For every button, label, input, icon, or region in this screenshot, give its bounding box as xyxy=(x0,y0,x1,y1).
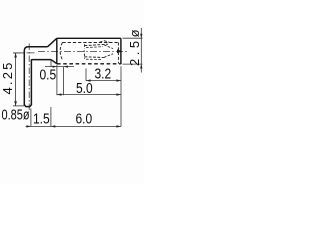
wire: arm centerline extended left (4.25 reference) xyxy=(13,52,36,54)
dim 4.25 top extension tick xyxy=(13,52,24,54)
contact spring top edge xyxy=(85,44,109,45)
dim 1.5 extension at pin right edge xyxy=(30,109,32,127)
dim 1.5/6.0 extension at taper corner xyxy=(50,107,52,127)
contact funnel bottom xyxy=(104,54,113,58)
dim 0.5 extension left (taper end corner) xyxy=(50,61,52,67)
dim 4.25 line xyxy=(15,53,17,106)
dim 5.0 line xyxy=(57,94,121,96)
dim 2.5 bottom extension xyxy=(123,63,143,65)
svg-text:5.0: 5.0 xyxy=(76,80,93,97)
dim 0.5 / 5.0 extension at body left face xyxy=(56,65,58,95)
dim 1.5 + 6.0 line xyxy=(26,125,122,127)
bore end hidden line xyxy=(117,43,119,64)
dim 2.5 line xyxy=(140,28,142,73)
contact spring top inner xyxy=(86,47,103,48)
svg-text:4.25: 4.25 xyxy=(0,60,15,94)
svg-text:6.0: 6.0 xyxy=(76,110,93,127)
svg-text:0.5: 0.5 xyxy=(40,66,57,83)
dim 3.2 line xyxy=(86,80,121,82)
svg-text:0.85ø: 0.85ø xyxy=(2,106,30,123)
contact spring bottom inner xyxy=(86,58,102,60)
wire: vertical centerline of pin xyxy=(28,44,30,111)
dim 0.5 extension at bore start xyxy=(63,67,65,95)
body top edge xyxy=(57,37,121,39)
body left face xyxy=(56,38,58,64)
pin L-shaped lead outline xyxy=(24,47,51,107)
dim 3.2 extension at contact left xyxy=(85,69,87,81)
wire: horizontal centerline of body xyxy=(38,50,127,52)
bore top hidden line xyxy=(63,42,119,44)
svg-text:3.2: 3.2 xyxy=(95,65,112,82)
centerline arrowhead at right face xyxy=(117,49,122,53)
dim 4.25 bottom extension xyxy=(13,105,24,107)
svg-text:2.5ø: 2.5ø xyxy=(127,26,142,66)
contact funnel top xyxy=(104,45,113,49)
dim 2.5 top extension xyxy=(123,37,143,39)
body right face xyxy=(120,38,122,64)
taper top xyxy=(48,38,57,47)
shared right extension at body right face xyxy=(120,66,122,126)
contact spring left end xyxy=(83,44,85,59)
body bottom edge (dashed) xyxy=(57,63,121,65)
contact spring bottom edge xyxy=(85,56,107,59)
dim 0.5 line xyxy=(45,66,74,68)
bore crimp bump xyxy=(100,41,110,43)
svg-text:1.5: 1.5 xyxy=(33,110,50,127)
taper bottom xyxy=(51,60,57,64)
bore entry arc hidden xyxy=(60,43,62,60)
